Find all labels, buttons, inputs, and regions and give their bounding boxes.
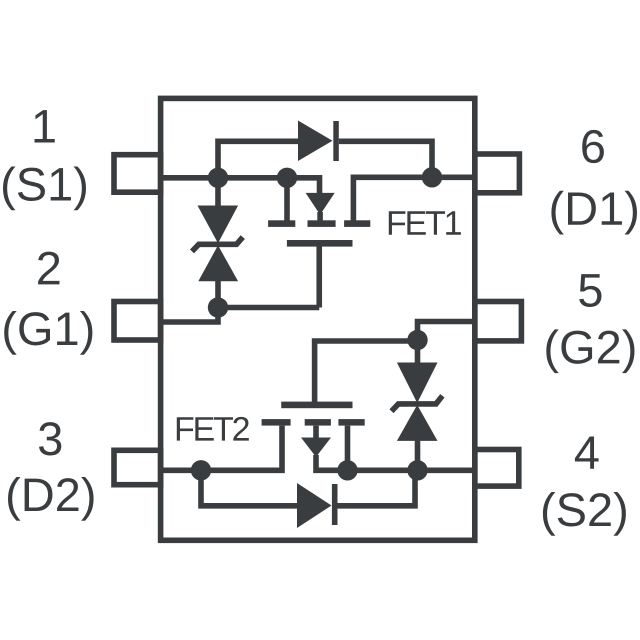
FET1 gate bar [287,240,353,247]
wire zener Z2 stems [415,340,421,470]
node dot FET1 source [277,168,297,188]
pin 4 box [475,450,519,487]
node dot FET2 drain [337,460,357,480]
node dot D1 [422,167,442,187]
zener Z2 bottom triangle [397,405,438,441]
wire diode D1a anode riser [218,141,300,178]
FET2 body bar [305,419,331,426]
FET2 source bar [262,419,291,426]
FET2 gate bar [281,402,352,409]
pin 2 box [114,302,161,341]
zener Z1 top triangle [198,206,239,244]
package outline [161,98,475,540]
pin 1 box [114,155,161,193]
pin label (S2) [543,492,626,536]
label FET1 [389,211,461,234]
FET1 source bar [268,220,295,227]
wire S2 node link [348,467,418,473]
node dot G1 [208,297,228,317]
pin 3 box [114,450,161,484]
node dot G2 [407,330,427,350]
wire FET1 gate to node [218,305,319,311]
pin label 4 [575,436,599,468]
diode D1a triangle (FET1 top diode) [298,121,333,162]
pin label (D2) [8,477,94,521]
wire G2 from pin 5 [418,322,475,341]
FET2 drain bar [338,419,364,426]
FET1 drain bar [344,220,370,227]
pin label (D1) [551,191,637,235]
wire FET1 gate stem [316,246,322,308]
node dot D2 [191,460,211,480]
pin label (S1) [3,166,86,210]
zener Z1 bottom triangle [198,245,238,281]
FET2 body diode triangle [301,438,331,458]
wire S2 node to pin 4 [418,467,475,473]
wire D1 node to pin 6 [432,175,475,181]
wire dot2 to FET1 body stem [287,178,320,194]
pin 6 box [475,154,520,193]
node dot S2 [407,460,427,480]
wire FET2 drain stub [345,426,351,471]
node dot S1 [208,168,228,188]
FET1 body bar [308,220,336,227]
wire diode D1a cathode [339,141,432,177]
pin label 2 [38,252,59,285]
pin 5 box [475,302,522,341]
pin label 3 [39,422,61,455]
wire FET1 drain stub [353,177,432,221]
wire FET2 body diode stems [316,426,348,471]
wire S1 main [161,175,287,181]
FET1 body diode apex stem [317,212,323,222]
pin label 5 [579,274,601,307]
zener Z2 z-bar [392,396,443,411]
wire diode D2a anode loop [201,470,298,506]
diode D2a triangle (FET2 bottom diode) [297,483,332,528]
diode D2a cathode bar [332,484,338,525]
pin label (G2) [546,329,634,373]
FET1 body diode triangle [306,193,335,215]
zener Z1 z-bar [192,237,243,251]
wire G1 drop to pin 2 [161,308,218,323]
diode D1a cathode bar [333,121,339,161]
pin label 1 [35,110,55,142]
wire diode D2a cathode loop [338,470,416,506]
wire FET2 gate wire [315,341,418,402]
label FET2 [177,417,249,441]
pin label 6 [582,130,604,163]
zener Z2 top triangle [397,363,438,404]
wire D2 main and FET2 source stub [161,426,282,471]
wire zener Z1 stems [215,178,221,308]
pin label (G1) [4,311,92,355]
wire FET1 source stub [284,178,290,221]
